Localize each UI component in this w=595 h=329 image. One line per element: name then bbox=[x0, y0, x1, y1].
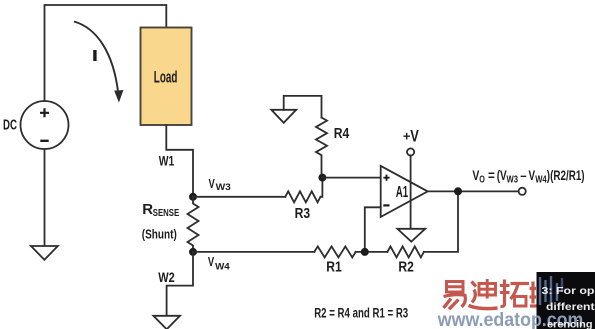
svg-text:O: O bbox=[479, 174, 485, 185]
label VW3 bbox=[209, 177, 231, 193]
label +V bbox=[403, 127, 419, 145]
op-amp A1 bbox=[381, 166, 428, 217]
label VO formula bbox=[472, 167, 584, 185]
svg-text:W3: W3 bbox=[507, 174, 519, 185]
svg-text:R: R bbox=[142, 201, 153, 218]
svg-text:W4: W4 bbox=[535, 174, 547, 185]
svg-text:R4: R4 bbox=[334, 126, 350, 142]
svg-text:(Shunt): (Shunt) bbox=[142, 228, 177, 242]
node output junction dot bbox=[454, 187, 462, 195]
wire op-amp output bbox=[428, 190, 519, 192]
svg-text:W4: W4 bbox=[215, 261, 230, 272]
node VW4 junction dot bbox=[189, 248, 197, 256]
svg-text:3: For op: 3: For op bbox=[542, 286, 595, 297]
terminal +V open circle bbox=[407, 148, 414, 155]
resistor R3 bbox=[285, 191, 320, 202]
svg-text:V: V bbox=[208, 255, 215, 269]
wire R2 up to output node bbox=[424, 191, 458, 252]
wire ground to R4 bbox=[284, 96, 322, 118]
node VW3 junction dot bbox=[189, 193, 197, 201]
svg-text:SENSE: SENSE bbox=[153, 207, 179, 219]
resistor R1 bbox=[314, 246, 355, 257]
resistor R2 bbox=[387, 246, 423, 257]
label I bbox=[93, 50, 96, 61]
svg-text:Load: Load bbox=[154, 67, 178, 86]
svg-text:R3: R3 bbox=[295, 206, 311, 222]
watermark red character yi bbox=[444, 282, 466, 310]
svg-text:)(R2/R1): )(R2/R1) bbox=[547, 167, 585, 183]
node plus-input junction dot bbox=[318, 174, 326, 182]
svg-text:–: – bbox=[520, 167, 526, 183]
wire node to op-amp plus input bbox=[322, 177, 380, 179]
current arrow I bbox=[74, 22, 123, 103]
svg-text:V: V bbox=[410, 127, 419, 145]
wire W1 from Load to sense node bbox=[166, 125, 193, 193]
svg-text:A1: A1 bbox=[396, 184, 408, 201]
wire minus input feedback bbox=[365, 207, 381, 252]
ground (above R4) bbox=[271, 110, 296, 123]
wire top rail from DC source to Load bbox=[45, 5, 167, 101]
wire W2 from sense node to ground bbox=[167, 252, 193, 316]
wire R3 up to plus-input node bbox=[321, 178, 323, 197]
watermark red character tuo bbox=[500, 280, 529, 307]
terminal VO open circle bbox=[519, 188, 526, 195]
load (resistive load block) bbox=[141, 28, 192, 126]
label RSENSE bbox=[142, 201, 179, 219]
svg-text:W3: W3 bbox=[216, 182, 231, 193]
watermark red character pei (partial) bbox=[530, 282, 537, 307]
svg-text:=: = bbox=[488, 167, 495, 183]
ground (below W2) bbox=[153, 316, 180, 329]
svg-text:R2 = R4 and R1 = R3: R2 = R4 and R1 = R3 bbox=[314, 306, 408, 321]
svg-text:erencing: erencing bbox=[547, 319, 593, 329]
wire +V through op-amp to ground bbox=[410, 155, 412, 228]
ground (left, below DC source) bbox=[31, 246, 58, 260]
resistor R4 bbox=[316, 118, 327, 178]
svg-text:W2: W2 bbox=[158, 270, 175, 285]
thumbnail watermark remnants bbox=[540, 276, 562, 306]
voltage source V DC bbox=[21, 101, 69, 149]
thumbnail dark box bbox=[537, 272, 595, 329]
svg-text:R1: R1 bbox=[326, 259, 342, 275]
ground (below op-amp) bbox=[397, 229, 425, 242]
wire R1 to feedback node bbox=[356, 251, 388, 253]
node feedback junction dot bbox=[361, 248, 369, 256]
svg-text:R2: R2 bbox=[398, 259, 414, 275]
svg-text:DC: DC bbox=[3, 118, 17, 134]
svg-text:W1: W1 bbox=[159, 154, 175, 169]
watermark red character di bbox=[469, 279, 498, 309]
resistor RSENSE (shunt) bbox=[188, 197, 199, 252]
wire DC source to ground bbox=[44, 149, 46, 246]
wire VW4 line to R1 bbox=[193, 251, 314, 253]
wire VW3 line to R3 bbox=[193, 196, 285, 198]
label VW4 bbox=[208, 255, 231, 272]
svg-text:V: V bbox=[209, 177, 216, 191]
